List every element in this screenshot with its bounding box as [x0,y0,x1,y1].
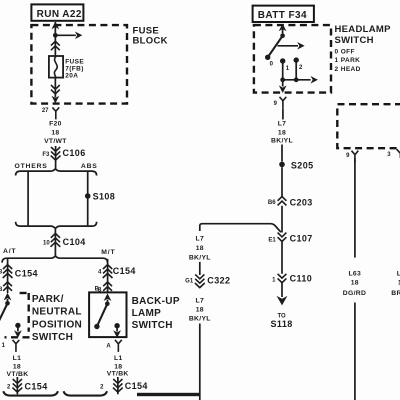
connector C203 [278,197,313,208]
svg-text:L1: L1 [13,355,22,362]
wire label L7 18 BK/YL on C322 branch [189,235,211,261]
svg-text:VT/BK: VT/BK [7,371,29,378]
junction dot [53,33,58,38]
park/neutral switch label [32,294,82,343]
svg-text:0: 0 [270,62,274,68]
connector C154 right [103,265,136,278]
svg-text:3: 3 [387,152,391,158]
back-up output wire and arrow down [113,326,121,338]
svg-text:8: 8 [0,287,3,293]
svg-text:3: 3 [0,270,3,276]
half connector Y below park/neutral [13,340,20,352]
chevron into back-up lamp switch [103,282,112,291]
svg-text:VT/BK: VT/BK [107,370,129,377]
connector C107 [278,233,313,244]
svg-text:2: 2 [299,65,303,71]
svg-text:B6: B6 [268,200,276,206]
back-up output terminal dot [114,323,119,328]
wire to splice S205 [281,145,283,162]
wire label L7 18 BK/YL [271,120,293,144]
horizontal wire with right arrow [280,76,318,84]
wire A/T branch [7,259,9,293]
headlamp switch dashed box [254,25,331,93]
svg-text:18: 18 [114,363,122,370]
svg-text:18: 18 [51,129,59,136]
svg-text:SWITCH: SWITCH [335,35,374,46]
back-up switch blade [97,304,107,327]
chevron into park/neutral switch [3,282,12,291]
park/neutral pivot dot [5,301,10,306]
headlamp exit arrow down [279,80,287,93]
half connector Y below right box [352,151,359,163]
wire label L62 18 BR (clipped) [391,271,400,297]
svg-text:1 PARK: 1 PARK [335,57,361,64]
svg-text:2: 2 [100,384,104,390]
svg-text:SWITCH: SWITCH [132,320,173,331]
branch wire right [55,34,75,36]
svg-text:18: 18 [351,279,359,286]
svg-text:A/T: A/T [3,248,16,255]
svg-text:S205: S205 [291,160,314,170]
arrow up to RUN A22 [51,22,59,30]
svg-text:L7: L7 [196,235,205,242]
connector C106 [51,146,86,170]
fuse block dashed box [31,25,127,104]
svg-text:E1: E1 [268,238,276,244]
connector C104 [51,233,86,247]
wire to C322 [199,262,201,275]
svg-text:M/T: M/T [101,249,115,256]
wire to C104 [54,228,56,256]
svg-text:POSITION: POSITION [32,319,82,330]
svg-text:A: A [106,343,111,349]
bottom connector bracket middle [64,391,108,395]
svg-text:HEADLAMP: HEADLAMP [335,24,392,35]
connector C154 left [3,265,38,279]
park/neutral position switch dashed box (partial) [5,293,30,337]
wire from RUN A22 into fuse block [54,22,56,56]
switch label BATT F34 [253,6,314,22]
half connector Y far right (clipped) [397,149,400,158]
bottom connector bracket left [3,391,58,395]
svg-text:L1: L1 [114,355,123,362]
svg-text:18: 18 [13,363,21,370]
park/neutral switch blade [0,303,8,322]
wire from BATT F34 into headlamp switch [279,24,287,36]
svg-text:BK/YL: BK/YL [189,255,211,262]
arrow down to fuse block edge [51,96,59,104]
wire down from C322 to bottom [199,324,201,400]
splitting brace [16,169,97,176]
headlamp positions legend [335,48,361,73]
connector chevrons above fuse [51,41,60,50]
svg-text:20A: 20A [65,73,78,80]
svg-text:DG/RD: DG/RD [343,290,366,297]
splice S205 [279,160,313,170]
svg-text:4: 4 [98,269,102,275]
connector chevrons below fuse [51,85,60,94]
connector C322 [195,274,231,287]
right component dashed box [337,104,400,148]
wire S205 to C203 [281,167,283,196]
svg-text:SWITCH: SWITCH [32,332,73,343]
svg-text:LAMP: LAMP [132,308,162,319]
svg-text:G1: G1 [185,279,194,285]
blade direction arrow [278,42,305,50]
wire OTHERS branch [27,172,29,226]
half connector Y below back-up switch [115,340,122,352]
svg-text:C107: C107 [290,233,313,243]
terminal 2 dot [294,57,304,71]
back-up blade end dot [94,324,99,329]
svg-text:7(FB): 7(FB) [65,66,84,73]
wire below fuse [54,78,56,98]
wire terminal 2 down [295,60,297,80]
svg-text:2 HEAD: 2 HEAD [335,66,361,73]
headlamp switch blade [268,36,283,58]
half connector Y below headlamp switch [280,97,287,120]
wire C107 to C110 [281,242,283,274]
svg-text:RUN A22: RUN A22 [37,9,82,20]
svg-text:1: 1 [2,343,6,349]
back-up lamp switch label [132,296,180,331]
svg-text:NEUTRAL: NEUTRAL [32,307,82,318]
wire right branch upper [354,158,356,258]
connector C110 [278,273,313,283]
wire terminal 1 down [282,61,284,80]
group labels A/T M/T [3,248,115,256]
svg-text:B: B [95,287,100,293]
headlamp switch label [335,24,392,46]
svg-text:1: 1 [286,66,290,72]
svg-text:0 OFF: 0 OFF [335,48,355,55]
wire label L7 18 BK/YL below C322 [189,298,211,323]
svg-text:ABS: ABS [81,163,98,170]
terminal 0 dot [265,55,274,68]
svg-text:9: 9 [346,153,350,159]
park/neutral output wire and arrow down [14,325,22,338]
svg-text:18: 18 [196,245,204,252]
fuse F7 body [49,56,63,78]
svg-text:PARK/: PARK/ [32,294,64,305]
svg-text:1: 1 [272,278,276,284]
svg-text:F3: F3 [42,152,50,158]
svg-text:C154: C154 [113,266,136,276]
svg-text:C154: C154 [125,381,148,391]
A/T M/T splitting brace [2,256,107,263]
svg-text:S108: S108 [93,192,116,202]
svg-text:BACK-UP: BACK-UP [132,296,180,307]
svg-text:L7: L7 [278,120,287,127]
svg-text:L63: L63 [348,271,361,278]
wire C203 to C107 [281,206,283,233]
svg-text:C154: C154 [15,268,38,278]
park/neutral output terminal dot [15,323,20,328]
splice S108 [85,192,115,202]
svg-text:BR/W: BR/W [391,290,400,297]
bottom box edge segment [137,393,200,396]
svg-text:BK/YL: BK/YL [189,316,211,323]
headlamp pivot dot [280,34,285,39]
merging brace [16,222,97,229]
svg-text:FUSE: FUSE [65,58,84,65]
svg-text:BLOCK: BLOCK [133,36,168,47]
svg-text:OTHERS: OTHERS [15,163,48,170]
back-up pivot dot [105,302,110,307]
connector C154 bottom left [12,377,47,394]
svg-text:18: 18 [278,129,286,136]
svg-text:BATT F34: BATT F34 [258,10,307,21]
wire label F20 18 VT/WT [44,120,67,144]
destination label TO S118 [271,314,293,330]
svg-text:18: 18 [196,307,204,314]
merge wire from C322 branch [200,224,281,233]
back-up switch arrow up [104,293,112,303]
wire ABS branch [87,172,89,226]
svg-text:L7: L7 [196,298,205,305]
wire label L1 18 VT/BK left [7,355,29,378]
svg-text:BK/YL: BK/YL [271,138,293,145]
back-up lamp switch box [89,292,126,337]
svg-text:F20: F20 [49,120,62,127]
svg-text:27: 27 [42,108,49,114]
svg-text:10: 10 [43,240,50,246]
wire label L1 18 VT/BK right [107,355,129,378]
group labels OTHERS / ABS [15,163,98,170]
terminal 1 dot [280,58,290,72]
svg-text:2: 2 [7,385,11,391]
svg-text:VT/WT: VT/WT [44,138,67,145]
wire M/T branch [107,259,109,293]
switch label RUN A22 [31,4,83,20]
svg-text:C322: C322 [207,276,230,286]
arrow right [75,32,82,40]
wire label L63 18 DG/RD [343,271,366,297]
wire below C110 with big arrow [277,283,288,306]
wire right branch lower [354,303,356,400]
svg-text:C154: C154 [25,381,48,391]
svg-text:C110: C110 [290,273,313,283]
half connector Y below pin 27 [52,107,59,119]
svg-text:S118: S118 [271,319,293,329]
svg-text:9: 9 [274,101,278,107]
fuse value label FUSE 7(FB) 20A [65,58,84,79]
svg-text:C106: C106 [63,148,86,158]
park/neutral switch arrow up [4,293,12,304]
svg-text:C104: C104 [63,237,86,247]
fuse block label [133,26,168,47]
svg-text:C203: C203 [290,198,313,208]
connector C154 bottom right [113,377,148,394]
